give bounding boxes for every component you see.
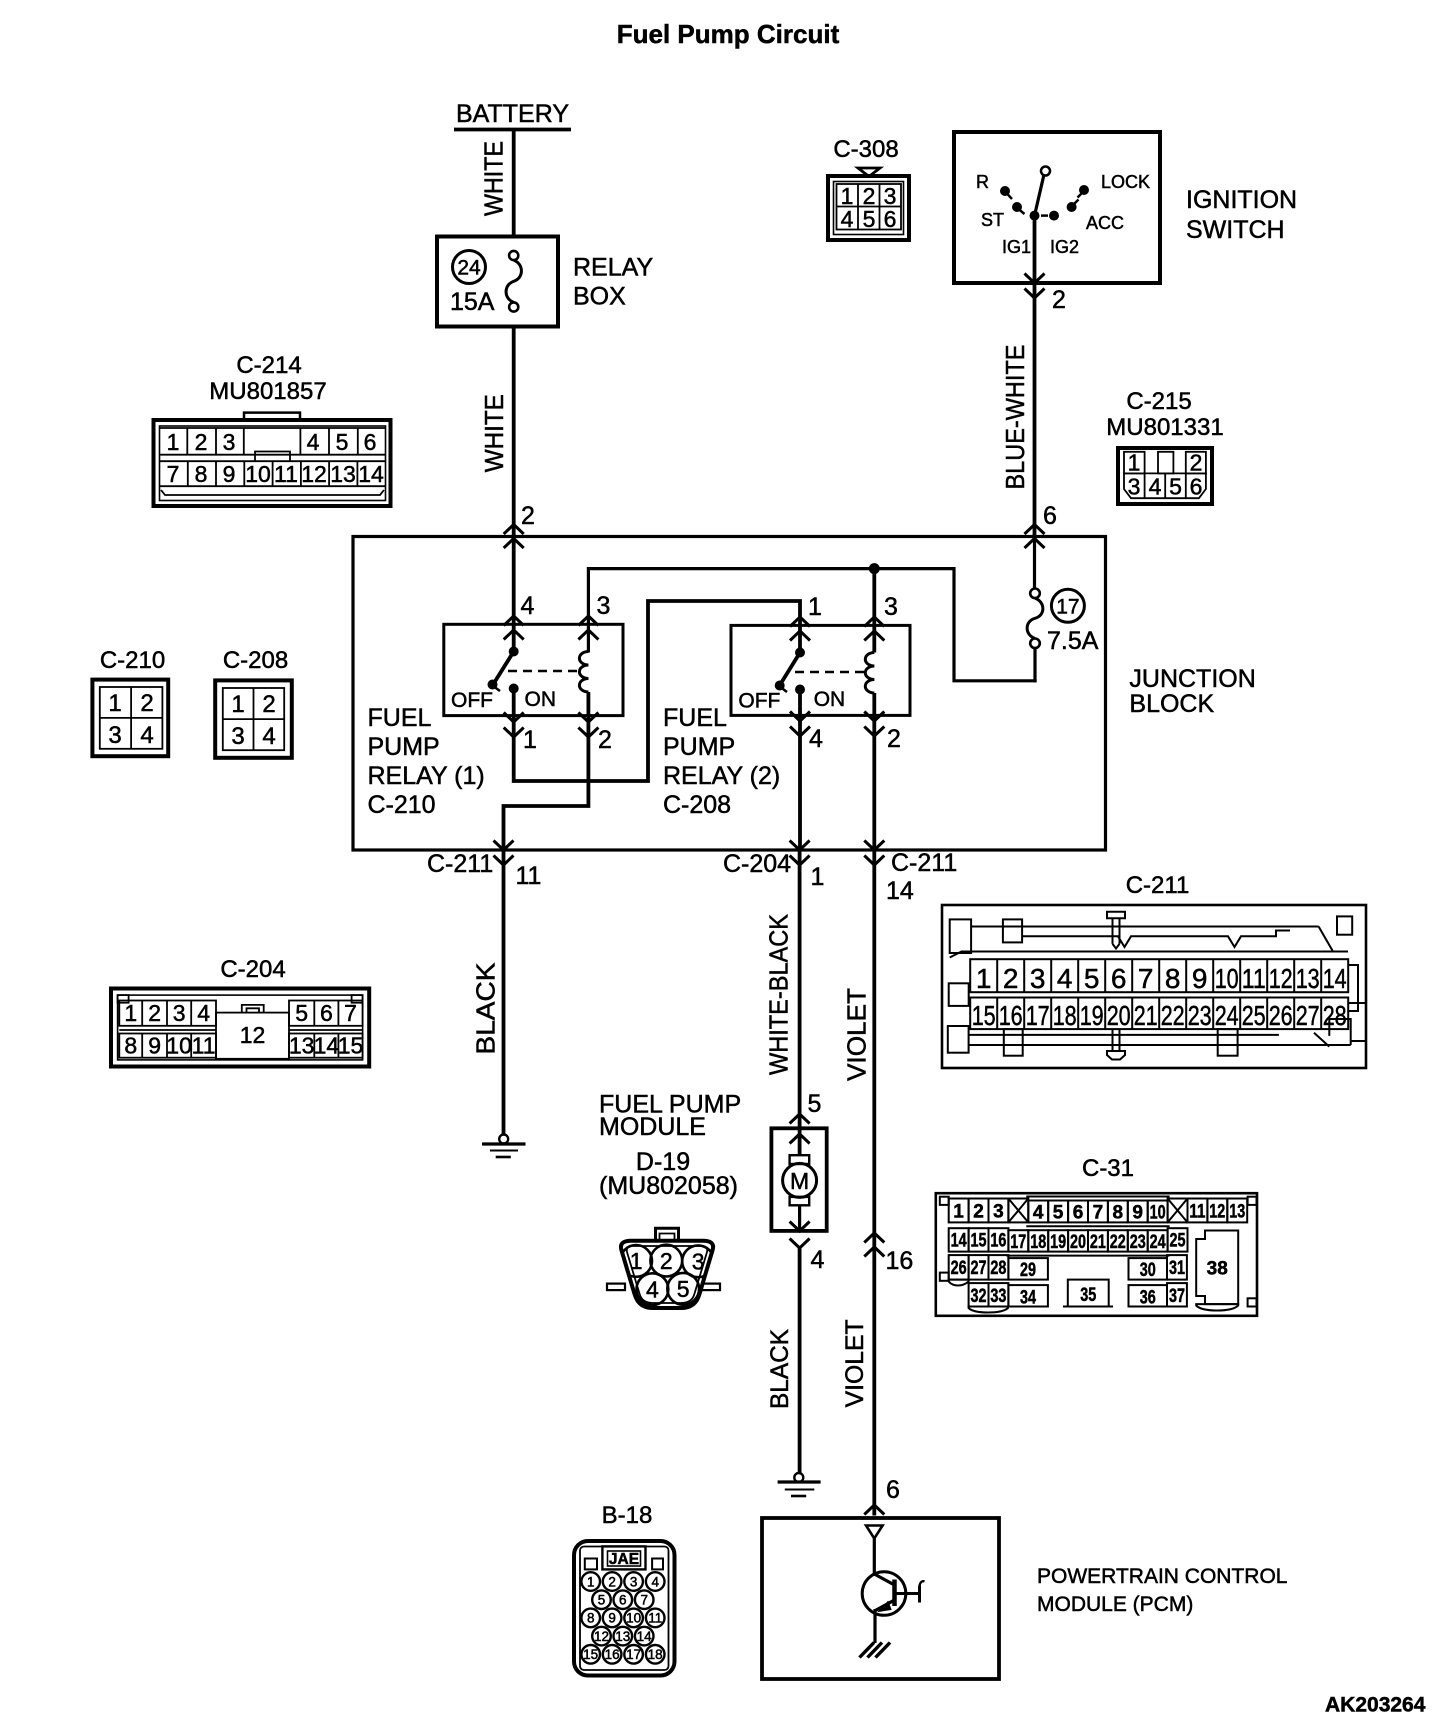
svg-text:13: 13 xyxy=(615,1629,630,1644)
svg-text:15: 15 xyxy=(971,1231,987,1252)
svg-text:25: 25 xyxy=(1170,1231,1186,1252)
wire C-211 pin 14 to PCM (VIOLET) xyxy=(872,850,876,1516)
svg-text:14: 14 xyxy=(637,1629,653,1644)
svg-text:C-211: C-211 xyxy=(891,849,957,877)
fuel pump relay 1 coil xyxy=(579,652,588,693)
svg-text:C-211: C-211 xyxy=(1126,872,1190,899)
PCM pin 6 arrow xyxy=(864,1505,884,1515)
connector C-204 xyxy=(111,989,369,1067)
svg-text:8: 8 xyxy=(124,1033,137,1059)
svg-text:1: 1 xyxy=(167,429,180,455)
svg-text:OFF: OFF xyxy=(451,689,493,712)
svg-text:1: 1 xyxy=(811,863,825,891)
svg-text:7: 7 xyxy=(1093,1203,1104,1224)
node BATTERY xyxy=(454,100,571,130)
svg-text:R: R xyxy=(976,172,989,192)
svg-text:6: 6 xyxy=(619,1593,627,1608)
connector D-19 xyxy=(607,1228,720,1308)
ignition switch box xyxy=(954,132,1160,283)
svg-text:6: 6 xyxy=(320,1000,333,1026)
svg-text:15: 15 xyxy=(583,1647,598,1662)
relay2 pin 4 arrows xyxy=(790,712,810,737)
svg-text:3: 3 xyxy=(1128,474,1141,500)
svg-text:19: 19 xyxy=(1050,1232,1066,1253)
svg-text:6: 6 xyxy=(1111,963,1127,994)
connector C-211 xyxy=(942,905,1366,1068)
PCM label xyxy=(1037,1565,1287,1616)
relay2 pin 3 arrows xyxy=(864,617,884,641)
svg-text:17: 17 xyxy=(1010,1232,1026,1253)
svg-text:5: 5 xyxy=(598,1593,606,1608)
connector C-215 label xyxy=(1106,388,1223,441)
relay1 pin 3 arrows xyxy=(578,616,598,640)
C-211 pin 14 exit arrows xyxy=(864,841,884,866)
svg-text:2: 2 xyxy=(598,726,612,754)
fuel pump module label xyxy=(599,1091,741,1201)
svg-text:1: 1 xyxy=(108,690,121,717)
svg-text:5: 5 xyxy=(295,1000,308,1026)
svg-text:10: 10 xyxy=(245,461,271,487)
wire node to relay2 pin 3 xyxy=(872,569,876,653)
svg-text:LOCK: LOCK xyxy=(1101,172,1150,192)
ground (left) xyxy=(482,1135,526,1158)
svg-text:10: 10 xyxy=(166,1033,192,1059)
svg-text:M: M xyxy=(790,1168,809,1194)
svg-text:BLOCK: BLOCK xyxy=(1129,690,1214,718)
svg-text:2: 2 xyxy=(608,1574,616,1589)
svg-text:1: 1 xyxy=(953,1202,964,1223)
svg-text:VIOLET: VIOLET xyxy=(841,988,871,1081)
svg-text:C-211: C-211 xyxy=(427,850,493,878)
svg-text:9: 9 xyxy=(223,461,236,487)
svg-text:BATTERY: BATTERY xyxy=(456,100,569,128)
svg-text:6: 6 xyxy=(1190,474,1203,500)
svg-text:4: 4 xyxy=(811,1246,825,1274)
svg-text:24: 24 xyxy=(1215,1000,1239,1031)
svg-text:28: 28 xyxy=(990,1258,1006,1279)
svg-text:FUEL: FUEL xyxy=(368,704,432,732)
svg-text:3: 3 xyxy=(1030,963,1046,994)
svg-text:IG2: IG2 xyxy=(1050,237,1079,257)
svg-text:3: 3 xyxy=(692,1249,705,1275)
svg-text:Fuel Pump Circuit: Fuel Pump Circuit xyxy=(617,19,840,49)
svg-text:PUMP: PUMP xyxy=(663,733,735,761)
svg-text:WHITE: WHITE xyxy=(478,141,508,216)
svg-text:1: 1 xyxy=(808,593,822,621)
fuel pump relay 2 coil xyxy=(865,653,874,694)
svg-text:18: 18 xyxy=(1053,1000,1077,1031)
relay1 pin 1 arrows xyxy=(504,713,524,738)
svg-text:4: 4 xyxy=(651,1574,659,1589)
svg-text:15: 15 xyxy=(338,1033,364,1059)
svg-text:4: 4 xyxy=(809,725,823,753)
svg-text:ON: ON xyxy=(814,688,846,711)
svg-text:MODULE (PCM): MODULE (PCM) xyxy=(1037,1593,1193,1616)
C-204 pin 1 exit arrows xyxy=(790,841,810,866)
svg-text:ACC: ACC xyxy=(1086,213,1124,233)
svg-text:5: 5 xyxy=(1084,963,1100,994)
svg-text:4: 4 xyxy=(262,723,275,750)
pin 2 entry arrows junction block xyxy=(504,525,524,549)
svg-text:MU801331: MU801331 xyxy=(1106,414,1223,441)
svg-text:2: 2 xyxy=(140,690,153,717)
svg-text:21: 21 xyxy=(1090,1232,1106,1253)
svg-text:14: 14 xyxy=(314,1033,340,1059)
svg-text:12: 12 xyxy=(301,461,327,487)
svg-text:PUMP: PUMP xyxy=(368,733,440,761)
svg-text:2: 2 xyxy=(1052,286,1066,314)
junction block xyxy=(353,537,1106,851)
svg-text:7: 7 xyxy=(640,1593,648,1608)
svg-text:35: 35 xyxy=(1080,1285,1096,1306)
svg-text:5: 5 xyxy=(1169,474,1182,500)
fuel pump motor xyxy=(783,1155,817,1231)
svg-text:24: 24 xyxy=(1150,1232,1166,1253)
svg-text:6: 6 xyxy=(884,206,897,232)
wire relay2 pin 2 to C-211 pin 14 exit xyxy=(872,693,876,850)
svg-text:3: 3 xyxy=(630,1574,638,1589)
connector B-18 xyxy=(574,1541,675,1676)
connector C-214 xyxy=(154,413,391,506)
wire triangle to transistor xyxy=(873,1539,876,1577)
svg-text:23: 23 xyxy=(1188,1000,1212,1031)
svg-text:2: 2 xyxy=(262,691,275,718)
ignition switch label xyxy=(1186,186,1297,244)
svg-text:6: 6 xyxy=(364,429,377,455)
svg-text:25: 25 xyxy=(1242,1000,1266,1031)
svg-text:29: 29 xyxy=(1020,1260,1036,1281)
powertrain control module box xyxy=(762,1518,999,1679)
svg-text:12: 12 xyxy=(240,1022,266,1048)
svg-text:16: 16 xyxy=(605,1647,620,1662)
wire junction entry 6 to fuse 17 xyxy=(1033,537,1036,590)
wire C-211 pin 11 to ground (BLACK) xyxy=(502,850,506,1135)
svg-text:20: 20 xyxy=(1107,1000,1131,1031)
svg-text:8: 8 xyxy=(1165,963,1181,994)
svg-text:34: 34 xyxy=(1020,1288,1036,1309)
svg-text:C-31: C-31 xyxy=(1082,1155,1134,1182)
wire relay1 pin 1 to relay2 pin 1 xyxy=(514,601,800,781)
fuel pump relay 1 label xyxy=(368,704,485,819)
connector C-215 xyxy=(1118,448,1212,504)
svg-text:17: 17 xyxy=(1056,595,1079,618)
svg-text:38: 38 xyxy=(1207,1259,1228,1280)
svg-text:C-204: C-204 xyxy=(220,956,285,983)
svg-text:4: 4 xyxy=(197,1000,210,1026)
svg-text:2: 2 xyxy=(973,1202,984,1223)
svg-text:IG1: IG1 xyxy=(1002,237,1031,257)
svg-text:SWITCH: SWITCH xyxy=(1186,216,1285,244)
svg-text:17: 17 xyxy=(1026,1000,1050,1031)
svg-text:BLACK: BLACK xyxy=(470,962,500,1055)
svg-text:OFF: OFF xyxy=(738,690,780,713)
svg-text:RELAY: RELAY xyxy=(573,254,653,282)
fuse 17 7.5A xyxy=(1027,589,1099,683)
svg-text:IGNITION: IGNITION xyxy=(1186,186,1297,214)
svg-text:3: 3 xyxy=(993,1202,1004,1223)
svg-text:11: 11 xyxy=(274,461,298,487)
svg-text:C-215: C-215 xyxy=(1126,388,1191,415)
wire junction entry to relay1 pin 4 xyxy=(512,537,516,653)
svg-text:2: 2 xyxy=(1190,450,1203,476)
svg-text:C-308: C-308 xyxy=(833,136,898,163)
svg-text:33: 33 xyxy=(990,1286,1006,1307)
svg-text:12: 12 xyxy=(1269,963,1293,994)
svg-text:8: 8 xyxy=(587,1611,595,1626)
svg-text:26: 26 xyxy=(951,1258,967,1279)
svg-text:7: 7 xyxy=(167,461,180,487)
svg-text:5: 5 xyxy=(863,206,876,232)
module pin 5 arrows xyxy=(790,1114,810,1144)
svg-text:18: 18 xyxy=(1030,1232,1046,1253)
svg-text:21: 21 xyxy=(1134,1000,1158,1031)
svg-text:C-210: C-210 xyxy=(368,791,436,819)
svg-text:C-214: C-214 xyxy=(236,352,301,379)
relay2 pin 1 arrows xyxy=(790,617,810,641)
svg-text:9: 9 xyxy=(1192,963,1208,994)
svg-text:22: 22 xyxy=(1110,1232,1126,1253)
svg-text:9: 9 xyxy=(1132,1203,1143,1224)
fuel pump relay 2 switch xyxy=(738,648,867,713)
junction block label xyxy=(1129,665,1255,718)
wire relay1 pin 3 to fuse 17 run xyxy=(588,569,1036,681)
pin 6 entry arrows junction block xyxy=(1025,525,1045,549)
fuel pump relay 1 box xyxy=(444,624,623,715)
svg-text:7.5A: 7.5A xyxy=(1047,627,1099,655)
svg-text:3: 3 xyxy=(108,722,121,749)
svg-text:36: 36 xyxy=(1140,1288,1156,1309)
svg-text:BOX: BOX xyxy=(573,283,626,311)
svg-text:10: 10 xyxy=(1215,963,1239,994)
svg-text:AK203264: AK203264 xyxy=(1325,1694,1426,1717)
wire battery to relay box (WHITE) xyxy=(512,131,516,238)
svg-text:8: 8 xyxy=(195,461,208,487)
transistor Q (PCM driver) xyxy=(862,1572,924,1616)
svg-text:20: 20 xyxy=(1070,1232,1086,1253)
svg-text:11: 11 xyxy=(516,862,542,890)
svg-text:3: 3 xyxy=(223,429,236,455)
svg-text:4: 4 xyxy=(140,722,153,749)
svg-text:18: 18 xyxy=(648,1647,663,1662)
svg-text:JUNCTION: JUNCTION xyxy=(1129,665,1255,693)
svg-text:12: 12 xyxy=(594,1629,609,1644)
pin 2 exit arrows xyxy=(1025,274,1045,299)
chassis ground xyxy=(860,1643,891,1658)
svg-text:BLACK: BLACK xyxy=(766,1329,794,1409)
svg-text:3: 3 xyxy=(231,723,244,750)
svg-text:2: 2 xyxy=(1003,963,1019,994)
relay box label xyxy=(573,254,653,311)
svg-text:11: 11 xyxy=(1189,1202,1205,1223)
svg-text:RELAY (2): RELAY (2) xyxy=(663,762,780,790)
svg-text:31: 31 xyxy=(1169,1258,1185,1279)
svg-text:14: 14 xyxy=(886,877,914,905)
svg-text:2: 2 xyxy=(521,502,535,530)
connector C-31 xyxy=(936,1193,1257,1316)
relay1 pin 2 arrows xyxy=(578,713,598,738)
svg-text:MODULE: MODULE xyxy=(599,1113,706,1141)
svg-text:14: 14 xyxy=(1323,963,1347,994)
svg-text:10: 10 xyxy=(626,1611,641,1626)
svg-text:27: 27 xyxy=(1296,1000,1320,1031)
PCM input triangle xyxy=(866,1526,883,1539)
svg-text:3: 3 xyxy=(884,593,898,621)
svg-text:5: 5 xyxy=(1053,1203,1064,1224)
svg-text:23: 23 xyxy=(1130,1232,1146,1253)
svg-text:13: 13 xyxy=(289,1033,315,1059)
svg-text:5: 5 xyxy=(677,1276,690,1302)
svg-text:5: 5 xyxy=(808,1090,822,1118)
svg-text:4: 4 xyxy=(1057,963,1073,994)
svg-text:16: 16 xyxy=(886,1247,914,1275)
svg-text:4: 4 xyxy=(1149,474,1162,500)
fuel pump relay 2 box xyxy=(731,625,910,715)
svg-text:4: 4 xyxy=(1033,1203,1044,1224)
svg-text:37: 37 xyxy=(1169,1286,1185,1307)
wire relay1 pin 2 to C-211 pin 11 exit xyxy=(504,692,589,850)
svg-text:1: 1 xyxy=(124,1000,137,1026)
svg-text:22: 22 xyxy=(1161,1000,1185,1031)
wire transistor emitter to chassis ground xyxy=(873,1609,876,1643)
svg-text:7: 7 xyxy=(344,1000,357,1026)
svg-text:11: 11 xyxy=(648,1611,662,1626)
C-211 pin 11 exit arrows xyxy=(494,841,514,866)
module pin 4 arrows xyxy=(790,1222,810,1249)
fuel pump module box xyxy=(771,1128,826,1231)
svg-text:1: 1 xyxy=(976,963,992,994)
svg-text:ST: ST xyxy=(981,210,1004,230)
svg-text:2: 2 xyxy=(887,725,901,753)
svg-text:2: 2 xyxy=(148,1000,161,1026)
C-31 pin 16 arrows xyxy=(864,1233,884,1257)
svg-text:2: 2 xyxy=(660,1248,673,1274)
svg-text:ON: ON xyxy=(525,688,557,711)
svg-text:7: 7 xyxy=(1138,963,1154,994)
svg-text:BLUE-WHITE: BLUE-WHITE xyxy=(1000,345,1030,490)
svg-text:10: 10 xyxy=(1150,1203,1166,1224)
wire ignition switch pin 2 to junction (BLUE-WHITE) xyxy=(1033,216,1037,537)
relay2 pin 2 arrows xyxy=(864,712,884,737)
svg-text:6: 6 xyxy=(886,1476,900,1504)
svg-text:B-18: B-18 xyxy=(602,1502,653,1529)
ground (middle) xyxy=(778,1473,821,1496)
svg-text:16: 16 xyxy=(990,1231,1006,1252)
svg-text:12: 12 xyxy=(1209,1202,1225,1223)
svg-text:17: 17 xyxy=(626,1647,641,1662)
svg-text:15A: 15A xyxy=(450,288,495,316)
svg-text:13: 13 xyxy=(330,461,356,487)
svg-text:19: 19 xyxy=(1080,1000,1104,1031)
connector C-210 xyxy=(92,680,168,757)
fuel pump relay 1 switch xyxy=(451,647,581,713)
svg-text:6: 6 xyxy=(1073,1203,1084,1224)
svg-text:11: 11 xyxy=(1242,963,1266,994)
wire relay1 pin3 into coil xyxy=(587,624,590,652)
svg-text:VIOLET: VIOLET xyxy=(841,1319,869,1407)
svg-text:13: 13 xyxy=(1229,1202,1245,1223)
svg-text:9: 9 xyxy=(148,1033,161,1059)
svg-text:28: 28 xyxy=(1323,1000,1347,1031)
svg-text:1: 1 xyxy=(523,726,537,754)
svg-text:1: 1 xyxy=(1128,450,1141,476)
svg-text:24: 24 xyxy=(457,257,481,280)
svg-text:4: 4 xyxy=(307,429,320,455)
relay1 pin 4 arrows xyxy=(504,616,524,640)
connector C-308 xyxy=(828,168,909,240)
fuse 24 15A xyxy=(450,251,521,317)
svg-text:1: 1 xyxy=(231,691,244,718)
svg-text:FUEL: FUEL xyxy=(663,704,727,732)
svg-text:32: 32 xyxy=(971,1286,987,1307)
wire relay box to junction block (WHITE) xyxy=(512,327,516,537)
svg-text:WHITE-BLACK: WHITE-BLACK xyxy=(764,913,794,1075)
relay box xyxy=(437,237,558,327)
ignition switch contacts xyxy=(1000,167,1089,221)
svg-text:5: 5 xyxy=(336,429,349,455)
svg-text:27: 27 xyxy=(971,1258,987,1279)
wire module pin 4 to ground (BLACK) xyxy=(798,1248,802,1474)
svg-text:C-204: C-204 xyxy=(723,850,791,878)
svg-text:30: 30 xyxy=(1140,1260,1156,1281)
connector C-208 xyxy=(215,680,292,757)
connector C-214 label xyxy=(209,352,326,405)
junction node on pin3 run xyxy=(869,563,880,574)
svg-text:2: 2 xyxy=(195,429,208,455)
svg-text:13: 13 xyxy=(1296,963,1320,994)
svg-text:4: 4 xyxy=(521,592,535,620)
svg-text:3: 3 xyxy=(597,592,611,620)
svg-text:C-208: C-208 xyxy=(223,647,288,674)
svg-text:11: 11 xyxy=(192,1033,216,1059)
svg-text:JAE: JAE xyxy=(609,1551,639,1568)
svg-text:1: 1 xyxy=(630,1248,643,1274)
svg-text:MU801857: MU801857 xyxy=(209,378,326,405)
svg-text:3: 3 xyxy=(173,1000,186,1026)
svg-text:16: 16 xyxy=(999,1000,1023,1031)
wire relay2 pin 4 to C-204 pin 1 exit xyxy=(798,690,802,851)
svg-text:15: 15 xyxy=(972,1000,996,1031)
ignition switch position labels xyxy=(976,172,1150,257)
svg-text:1: 1 xyxy=(587,1574,595,1589)
svg-text:C-208: C-208 xyxy=(663,791,731,819)
svg-text:4: 4 xyxy=(841,206,854,232)
svg-text:14: 14 xyxy=(951,1231,967,1252)
wire C-204 pin 1 to fuel pump module (WHITE-BLACK) xyxy=(798,850,802,1155)
svg-text:6: 6 xyxy=(1043,502,1057,530)
svg-text:9: 9 xyxy=(608,1611,616,1626)
svg-text:POWERTRAIN CONTROL: POWERTRAIN CONTROL xyxy=(1037,1565,1287,1588)
svg-text:WHITE: WHITE xyxy=(479,394,509,472)
svg-text:C-210: C-210 xyxy=(100,647,165,674)
svg-text:26: 26 xyxy=(1269,1000,1293,1031)
svg-text:4: 4 xyxy=(646,1277,659,1303)
svg-text:14: 14 xyxy=(358,461,384,487)
svg-text:RELAY (1): RELAY (1) xyxy=(368,762,485,790)
fuel pump relay 2 label xyxy=(663,704,780,819)
svg-text:8: 8 xyxy=(1113,1203,1124,1224)
svg-text:(MU802058): (MU802058) xyxy=(599,1172,738,1200)
